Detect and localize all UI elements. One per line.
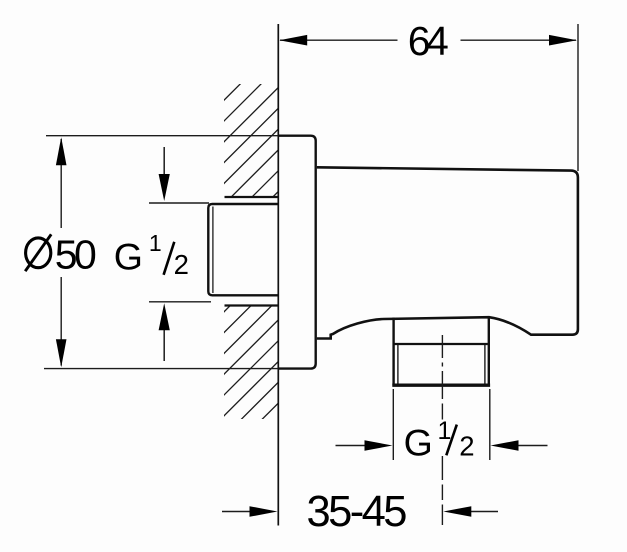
bottom G1/2 dim extension line right xyxy=(489,389,491,460)
dim 64 arrow right xyxy=(549,35,577,46)
svg-text:35-45: 35-45 xyxy=(307,488,408,536)
wall surface line xyxy=(277,24,279,526)
centerline of outlet xyxy=(441,335,443,525)
svg-text:1: 1 xyxy=(149,230,162,256)
dim Ø50 arrow up xyxy=(56,137,67,165)
svg-text:50: 50 xyxy=(55,231,97,277)
wall hatching lower band xyxy=(204,232,304,498)
body outline of wall union xyxy=(317,167,578,338)
inner dim extension line top xyxy=(149,202,209,204)
dim 64 line xyxy=(280,39,398,41)
bottom G1/2 dim extension line left xyxy=(392,389,394,460)
flange escutcheon Ø50 xyxy=(279,136,316,369)
outlet thread root line left xyxy=(397,345,399,384)
bottom G1/2 arrow left inward xyxy=(336,445,368,447)
outlet thread start line xyxy=(395,343,488,345)
dim 35-45 arrow right inward xyxy=(468,511,498,513)
dim 64 extension line right xyxy=(577,24,579,171)
svg-text:64: 64 xyxy=(408,18,449,64)
dim 35-45 arrow left inward xyxy=(222,511,252,513)
wall hole top edge xyxy=(225,196,279,198)
bottom G1/2 arrow right inward xyxy=(517,445,548,447)
dim Ø50 top extension line xyxy=(46,135,278,137)
dim Ø50 arrow down xyxy=(56,339,67,367)
svg-text:G: G xyxy=(404,422,433,464)
svg-text:2: 2 xyxy=(174,249,189,280)
wall hole bottom edge xyxy=(225,304,279,306)
inner dim arrow up xyxy=(163,328,165,362)
wall hatching upper band xyxy=(204,20,304,307)
outlet block G1/2 thread left side xyxy=(392,318,394,386)
svg-text:2: 2 xyxy=(459,431,474,462)
inner dim arrow down xyxy=(163,147,165,177)
svg-text:1: 1 xyxy=(438,417,452,445)
outlet thread root line right xyxy=(484,345,486,384)
dim Ø50 label diameter symbol xyxy=(26,238,51,268)
outlet thread bottom edge thick xyxy=(392,384,490,387)
dim Ø50 line xyxy=(60,139,62,228)
dim Ø50 bottom extension line xyxy=(44,368,278,370)
dim 64 arrow left xyxy=(279,35,307,46)
node wall connector block G1/2 behind wall xyxy=(208,204,278,295)
wall block thread relief line xyxy=(212,207,214,294)
svg-text:G: G xyxy=(114,236,143,278)
outlet block G1/2 thread right side xyxy=(488,317,490,386)
inner dim extension line bottom xyxy=(149,301,211,303)
